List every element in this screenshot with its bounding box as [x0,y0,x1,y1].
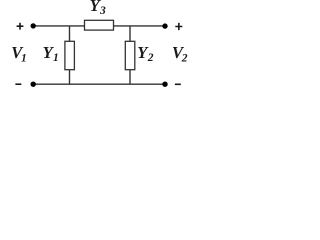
wire right shunt branch [129,26,131,84]
svg-text:1: 1 [21,52,27,64]
wire top-right segment [113,25,165,27]
node terminal bottom-left [31,82,36,87]
wire bottom [33,83,165,85]
admittance Y2 (right shunt box) [125,41,135,69]
svg-text:3: 3 [99,5,106,17]
node terminal top-left [31,23,36,28]
admittance Y3 (series box) [85,20,114,30]
svg-text:1: 1 [53,52,59,64]
polarity plus top-left [17,23,24,30]
node terminal top-right [162,23,167,28]
polarity minus bottom-left [15,83,21,85]
wire top-left segment [33,25,85,27]
polarity plus top-right [175,23,182,30]
svg-text:2: 2 [181,52,188,64]
polarity minus bottom-right [175,83,181,85]
node terminal bottom-right [162,82,167,87]
wire left shunt branch [69,26,71,84]
admittance Y1 (left shunt box) [65,41,75,69]
svg-text:2: 2 [147,52,154,64]
